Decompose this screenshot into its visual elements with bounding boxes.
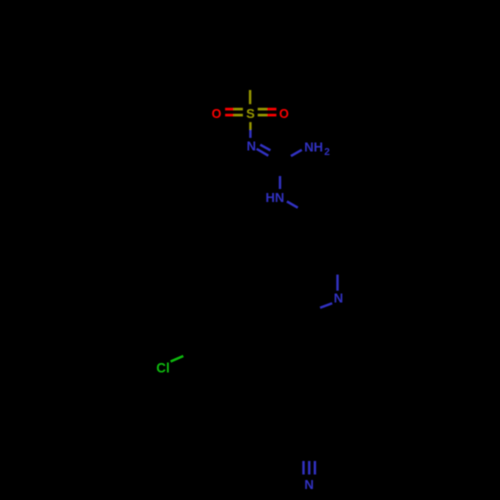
bond C#N nitrile line 3 (N half) bbox=[314, 461, 316, 475]
bond C-NH (N half) bbox=[279, 176, 281, 189]
bond S=O right, line 1 (S half) bbox=[258, 108, 267, 111]
svg-text:O: O bbox=[212, 107, 222, 121]
svg-text:N: N bbox=[304, 477, 313, 492]
bond S=O right, line 2 (S half) bbox=[258, 114, 267, 117]
bond N-C ring diagonal (N half) bbox=[320, 303, 332, 307]
bond C#N nitrile line 1 (N half) bbox=[302, 461, 304, 475]
wire: bond C-S upper half (S colored) bbox=[249, 90, 251, 104]
bond S-N (N half) bbox=[249, 130, 251, 138]
bond S=O left, line 2 (red half) bbox=[225, 114, 234, 117]
bond S=O right, line 1 (red half) bbox=[267, 108, 276, 111]
svg-text:O: O bbox=[279, 107, 289, 121]
svg-text:Cl: Cl bbox=[156, 360, 169, 375]
bond S-N (S half) bbox=[249, 122, 251, 130]
svg-text:S: S bbox=[246, 106, 255, 121]
bond S=O left, line 1 (S half) bbox=[234, 108, 243, 111]
svg-text:NH: NH bbox=[304, 139, 323, 154]
bond N=C main line (N half) bbox=[257, 149, 269, 156]
bond S=O left, line 1 (red half) bbox=[225, 108, 234, 111]
bond S=O right, line 2 (red half) bbox=[267, 114, 276, 117]
bond C#N nitrile line 2 main (N half) bbox=[308, 461, 310, 475]
svg-text:N: N bbox=[247, 138, 256, 153]
bond S=O left, line 2 (S half) bbox=[234, 114, 243, 117]
svg-text:2: 2 bbox=[324, 147, 330, 158]
bond N=C second line (N half) bbox=[260, 145, 270, 151]
bond Cl-C (Cl half) bbox=[171, 356, 184, 362]
bond C-N ring vertical (N half) bbox=[336, 275, 338, 291]
svg-text:HN: HN bbox=[266, 190, 285, 205]
bond HN-CH2 (N half) bbox=[287, 201, 298, 207]
svg-text:N: N bbox=[334, 291, 343, 306]
bond C-NH2 (N half) bbox=[291, 150, 302, 156]
